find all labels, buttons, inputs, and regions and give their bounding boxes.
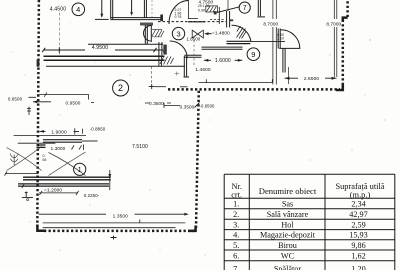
svg-text:8.7000: 8.7000 (263, 21, 278, 26)
wall corridor top y42 (227, 41, 286, 43)
svg-text:2.: 2. (233, 210, 239, 219)
svg-text:65: 65 (43, 158, 47, 162)
wall left y177 (23, 177, 111, 180)
wall corridor y48 (202, 47, 243, 49)
svg-text:Sas: Sas (282, 200, 293, 209)
svg-text:.25·1.30·: .25·1.30· (197, 4, 211, 8)
svg-text:1.3000: 1.3000 (51, 146, 66, 151)
extension line x59 (58, 13, 60, 55)
room label circle 4 (72, 3, 85, 16)
table row 5 Birou (233, 241, 366, 250)
svg-text:0.3500: 0.3500 (149, 101, 164, 106)
text 7.5100 (132, 144, 148, 150)
svg-text:crt.: crt. (231, 191, 242, 200)
wall room4 right vertical (144, 0, 146, 18)
table header text (231, 182, 385, 200)
boundary dotted mid vertical (196, 90, 199, 228)
cross mark near mid dots (149, 84, 166, 89)
wc fixture hatched (206, 6, 220, 24)
wall jog right of room2 top (159, 42, 162, 56)
svg-text:0.9500: 0.9500 (66, 101, 81, 106)
dimension 0.3500 inner (145, 101, 171, 106)
dimension text 4.4500 (50, 7, 66, 13)
svg-text:Denumire obiect: Denumire obiect (259, 186, 317, 196)
svg-text:9,86: 9,86 (351, 241, 365, 250)
small tick below nook arc (175, 72, 180, 76)
svg-text:1,20: 1,20 (351, 265, 365, 270)
bowtie fixture (192, 30, 203, 38)
svg-text:0.6500: 0.6500 (8, 96, 23, 101)
boundary dotted mid horizontal (168, 88, 340, 91)
room label circle 7 (217, 2, 250, 13)
wall room4 bottom horizontal (111, 15, 163, 22)
svg-text:4.4500: 4.4500 (50, 7, 66, 13)
svg-text:Sală vânzare: Sală vânzare (267, 210, 309, 219)
table row 6 WC (233, 252, 366, 261)
svg-text:-0.6500: -0.6500 (200, 104, 215, 109)
svg-text:3: 3 (176, 29, 180, 38)
text 1.2000 (39, 187, 79, 195)
wall right below door (283, 48, 285, 72)
boundary corner bottom-left (37, 225, 46, 231)
svg-text:2: 2 (118, 83, 123, 93)
text 0.2250 (84, 193, 100, 198)
wc small text block (175, 8, 182, 19)
svg-text:Magazie-depozit: Magazie-depozit (260, 231, 316, 240)
line y223 (43, 220, 186, 224)
wall room7 right vertical (257, 0, 265, 17)
hatch strip door leaf (237, 26, 247, 39)
wall nook top horizontal (184, 55, 201, 57)
table row 1 Sas (233, 200, 366, 209)
boundary dotted right vertical (342, 20, 345, 85)
svg-text:3.: 3. (233, 220, 239, 229)
tick and arrow at x110 (108, 170, 111, 190)
svg-text:1.4600: 1.4600 (195, 67, 211, 73)
line y143 (18, 142, 56, 144)
dimension 1.9000 line (14, 128, 86, 135)
door tag text (277, 33, 284, 41)
dimension text 1.4600 (195, 67, 211, 73)
dimension 1.3500 line (39, 213, 189, 220)
dimension 8.7000 right pair (326, 0, 341, 77)
dimension text 1.6500 (187, 36, 201, 41)
dashed line x152 (151, 0, 153, 17)
svg-text:1.6000: 1.6000 (215, 58, 231, 64)
boundary dotted top-right vertical (346, 0, 349, 17)
door arc hall to room9 (232, 25, 251, 41)
svg-text:1.: 1. (233, 200, 239, 209)
dimension line vertical x101 (95, 0, 109, 19)
door arc nook (170, 41, 187, 58)
svg-text:42,97: 42,97 (349, 210, 367, 219)
svg-text:Birou: Birou (278, 241, 297, 250)
svg-text:5.: 5. (233, 241, 239, 250)
svg-text:0.76: 0.76 (175, 15, 182, 19)
hall inner line y44 (88, 43, 163, 45)
svg-text:WC: WC (281, 252, 295, 261)
dimension line bottom right-wing (199, 79, 273, 83)
tiny text 0.90 (197, 4, 211, 12)
door arc hall top (169, 1, 188, 25)
svg-text:1.3500: 1.3500 (113, 214, 129, 220)
cross mark below boundary (111, 236, 117, 240)
arrow to bowtie (204, 32, 211, 35)
svg-text:1.9000: 1.9000 (51, 130, 67, 136)
boundary corner top-right (343, 18, 348, 21)
fixture hatch near hall (152, 29, 164, 37)
svg-text:1.6500: 1.6500 (187, 36, 201, 41)
svg-text:-0.8850: -0.8850 (90, 127, 106, 132)
svg-text:7.: 7. (233, 265, 239, 270)
svg-text:2.6500: 2.6500 (304, 76, 320, 82)
door swing arcs inside (49, 152, 86, 176)
svg-text:6.: 6. (233, 252, 239, 261)
wall room2 top (44, 56, 165, 60)
table row 7 cut (233, 265, 366, 270)
dimension 8.7000 left pair (263, 0, 278, 85)
dashed dimension line y21.5 (158, 19, 226, 21)
svg-text:Spălător: Spălător (274, 265, 302, 270)
svg-text:4.7500: 4.7500 (199, 0, 214, 4)
fixture hatch nook (159, 56, 174, 67)
room label circle 3 (172, 27, 184, 39)
door swing arcs outside (7, 147, 42, 171)
extension dashed x194 (193, 40, 195, 66)
cut dimension text top (199, 0, 214, 4)
dimension text 1.4800 (212, 30, 230, 35)
text 0.8850 (90, 127, 106, 132)
wall nook vertical (184, 56, 190, 77)
table row 4 Magazie-depozit (233, 231, 368, 240)
svg-text:15,93: 15,93 (349, 231, 367, 240)
inner line y66 (46, 65, 185, 67)
door jamb block (163, 45, 166, 55)
tiny vertical text 0.65 (43, 154, 47, 162)
small fixture bottom-left (22, 192, 33, 201)
svg-text:9: 9 (251, 50, 255, 59)
vertical wall x188 (188, 0, 205, 22)
svg-text:(m.p.): (m.p.) (350, 190, 371, 199)
door arc hall left semicircle (144, 25, 152, 43)
svg-text:=1.4800: =1.4800 (212, 30, 230, 35)
room label circle 2 (113, 80, 129, 96)
extension dashed x151 (150, 67, 152, 85)
svg-text:7: 7 (243, 5, 247, 12)
svg-text:4.9500: 4.9500 (92, 45, 108, 51)
dimension 1.6000 (204, 58, 243, 64)
svg-text:4.: 4. (233, 231, 239, 240)
tiny zigzag marker (10, 154, 18, 166)
svg-text:2.10: 2.10 (277, 37, 284, 41)
boundary dotted left vertical (37, 0, 40, 228)
text 0.6500 outside left (8, 96, 23, 101)
small line near dots (180, 86, 188, 88)
svg-text:2,59: 2,59 (351, 220, 365, 229)
thin line x288 (288, 67, 290, 84)
boundary corner bottom-mid (189, 226, 196, 231)
svg-text:0.3500: 0.3500 (180, 104, 195, 109)
dimension 4.9500 (42, 45, 166, 53)
svg-text:7.5100: 7.5100 (132, 144, 148, 150)
svg-text:4: 4 (76, 5, 80, 14)
line y228 (43, 227, 176, 229)
svg-text:0.90: 0.90 (198, 8, 205, 12)
small elevation marker (27, 107, 31, 116)
svg-text:1,62: 1,62 (351, 252, 365, 261)
svg-text:Hol: Hol (281, 220, 294, 229)
wall mid-left y141 (43, 140, 98, 143)
wall hall top horizontal (140, 23, 153, 25)
wall right-wing vertical x227 (227, 0, 230, 28)
dimension 2.6500 (285, 76, 337, 82)
wall hall left vertical (145, 25, 147, 45)
svg-text:1: 1 (78, 167, 82, 174)
door jamb dash (230, 19, 233, 21)
door room9 top (278, 29, 300, 49)
wall left y184 (18, 184, 109, 188)
svg-text:0.2250-: 0.2250- (84, 193, 100, 198)
svg-text:8.7000: 8.7000 (326, 21, 341, 26)
boundary dotted bottom horizontal (44, 230, 195, 233)
room label circle 1 (74, 163, 86, 175)
table grid (224, 174, 395, 270)
boundary corner right (336, 84, 343, 90)
dimension 0.3500 (164, 103, 200, 110)
room label circle 9 (247, 48, 260, 61)
dimension 0.9500 group (29, 93, 95, 106)
dimension line vertical x131 (130, 0, 133, 16)
table row 2 Sala vanzare (233, 210, 368, 219)
table row 3 Hol (233, 220, 366, 229)
wall room4 left vertical (111, 0, 113, 20)
text 1.3000 (51, 146, 66, 151)
line outside y173 (5, 171, 39, 175)
svg-text:2,34: 2,34 (351, 200, 365, 209)
wall step y145 (37, 145, 46, 147)
text 0.6500 outside right (200, 104, 215, 109)
